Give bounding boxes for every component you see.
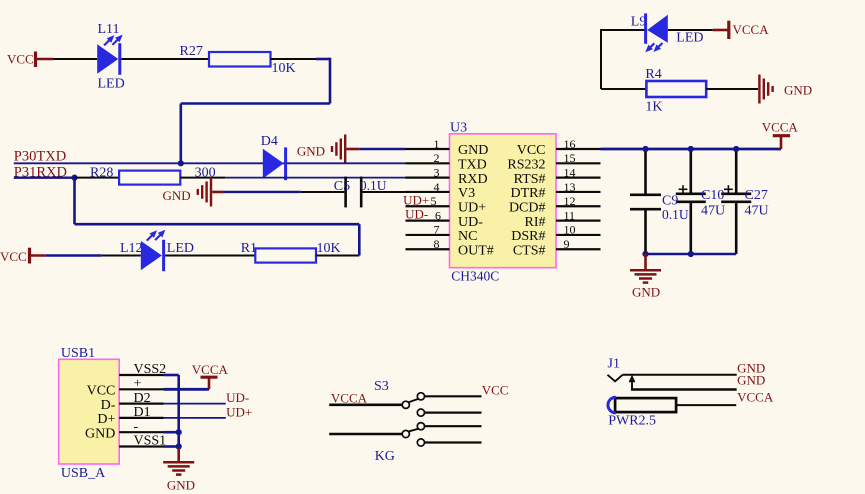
svg-text:LED: LED	[676, 30, 703, 45]
svg-text:DTR#: DTR#	[511, 186, 546, 201]
svg-text:U3: U3	[450, 121, 467, 136]
svg-text:L9: L9	[631, 15, 647, 30]
svg-text:UD+: UD+	[226, 404, 252, 419]
svg-text:15: 15	[564, 151, 576, 165]
svg-text:0.1U: 0.1U	[662, 207, 689, 222]
svg-text:D-: D-	[101, 398, 116, 413]
svg-text:UD+: UD+	[458, 200, 486, 215]
svg-text:-: -	[134, 419, 139, 434]
svg-text:VCCA: VCCA	[331, 390, 368, 405]
svg-text:USB1: USB1	[61, 346, 95, 361]
svg-text:VCCA: VCCA	[733, 22, 770, 37]
svg-text:J1: J1	[608, 357, 620, 372]
svg-text:TXD: TXD	[458, 158, 487, 173]
svg-text:7: 7	[434, 223, 440, 237]
svg-text:VCC: VCC	[87, 384, 116, 399]
svg-text:CTS#: CTS#	[513, 243, 546, 258]
svg-text:1: 1	[434, 137, 440, 151]
svg-text:GND: GND	[297, 143, 325, 158]
svg-text:NC: NC	[458, 229, 477, 244]
svg-text:C10: C10	[701, 188, 724, 203]
svg-text:4: 4	[434, 180, 440, 194]
svg-text:10: 10	[564, 223, 576, 237]
svg-text:VCC: VCC	[7, 52, 34, 67]
svg-text:UD+: UD+	[403, 193, 429, 208]
svg-text:VCC: VCC	[517, 143, 546, 158]
svg-text:5: 5	[431, 194, 437, 208]
svg-text:RTS#: RTS#	[514, 172, 546, 187]
svg-text:GND: GND	[632, 285, 660, 300]
svg-text:12: 12	[564, 194, 576, 208]
svg-text:C5: C5	[334, 179, 350, 194]
svg-text:8: 8	[434, 237, 440, 251]
svg-text:GND: GND	[85, 426, 115, 441]
svg-text:D+: D+	[97, 412, 115, 427]
svg-text:RI#: RI#	[525, 215, 546, 230]
svg-text:UD-: UD-	[405, 207, 428, 222]
svg-text:D1: D1	[134, 405, 151, 420]
svg-text:+: +	[134, 377, 142, 392]
svg-text:14: 14	[564, 165, 576, 179]
svg-text:USB_A: USB_A	[61, 466, 106, 481]
svg-text:GND: GND	[458, 143, 488, 158]
svg-text:C9: C9	[662, 193, 678, 208]
svg-text:RXD: RXD	[458, 172, 488, 187]
svg-text:16: 16	[564, 137, 576, 151]
svg-text:3: 3	[434, 165, 440, 179]
svg-text:VSS1: VSS1	[134, 434, 167, 449]
svg-text:11: 11	[564, 208, 576, 222]
svg-text:9: 9	[564, 237, 570, 251]
svg-text:C27: C27	[745, 188, 768, 203]
svg-text:GND: GND	[167, 477, 195, 492]
svg-text:PWR2.5: PWR2.5	[608, 413, 656, 428]
svg-text:VCCA: VCCA	[737, 389, 774, 404]
svg-text:P30TXD: P30TXD	[14, 148, 66, 164]
svg-text:KG: KG	[375, 449, 395, 464]
svg-text:RS232: RS232	[507, 158, 545, 173]
svg-text:R28: R28	[90, 166, 113, 181]
svg-text:R27: R27	[180, 44, 203, 59]
svg-text:0.1U: 0.1U	[360, 178, 387, 193]
svg-text:CH340C: CH340C	[451, 268, 499, 283]
svg-text:47U: 47U	[701, 204, 725, 219]
svg-text:10K: 10K	[272, 61, 296, 76]
svg-text:13: 13	[564, 180, 576, 194]
svg-text:OUT#: OUT#	[458, 243, 494, 258]
svg-text:UD-: UD-	[458, 215, 483, 230]
svg-text:VCC: VCC	[482, 382, 509, 397]
svg-text:47U: 47U	[745, 204, 769, 219]
svg-text:GND: GND	[737, 373, 765, 388]
svg-text:2: 2	[434, 151, 440, 165]
svg-text:GND: GND	[163, 188, 191, 203]
svg-text:V3: V3	[458, 186, 475, 201]
svg-text:VCCA: VCCA	[762, 119, 799, 134]
svg-text:GND: GND	[784, 83, 812, 98]
svg-text:R4: R4	[645, 67, 661, 82]
svg-text:VCCA: VCCA	[192, 362, 229, 377]
svg-text:1K: 1K	[645, 100, 662, 115]
svg-text:D4: D4	[261, 134, 278, 149]
svg-text:S3: S3	[374, 379, 389, 394]
svg-text:LED: LED	[167, 241, 194, 256]
svg-text:L12: L12	[120, 241, 143, 256]
svg-text:D2: D2	[134, 391, 151, 406]
svg-text:LED: LED	[98, 77, 125, 92]
svg-text:DCD#: DCD#	[509, 200, 546, 215]
svg-text:VCC: VCC	[0, 249, 27, 264]
svg-text:6: 6	[435, 208, 441, 222]
svg-text:DSR#: DSR#	[511, 229, 545, 244]
svg-text:UD-: UD-	[226, 390, 249, 405]
svg-text:L11: L11	[98, 22, 120, 37]
svg-text:VSS2: VSS2	[134, 362, 167, 377]
svg-text:10K: 10K	[317, 241, 341, 256]
